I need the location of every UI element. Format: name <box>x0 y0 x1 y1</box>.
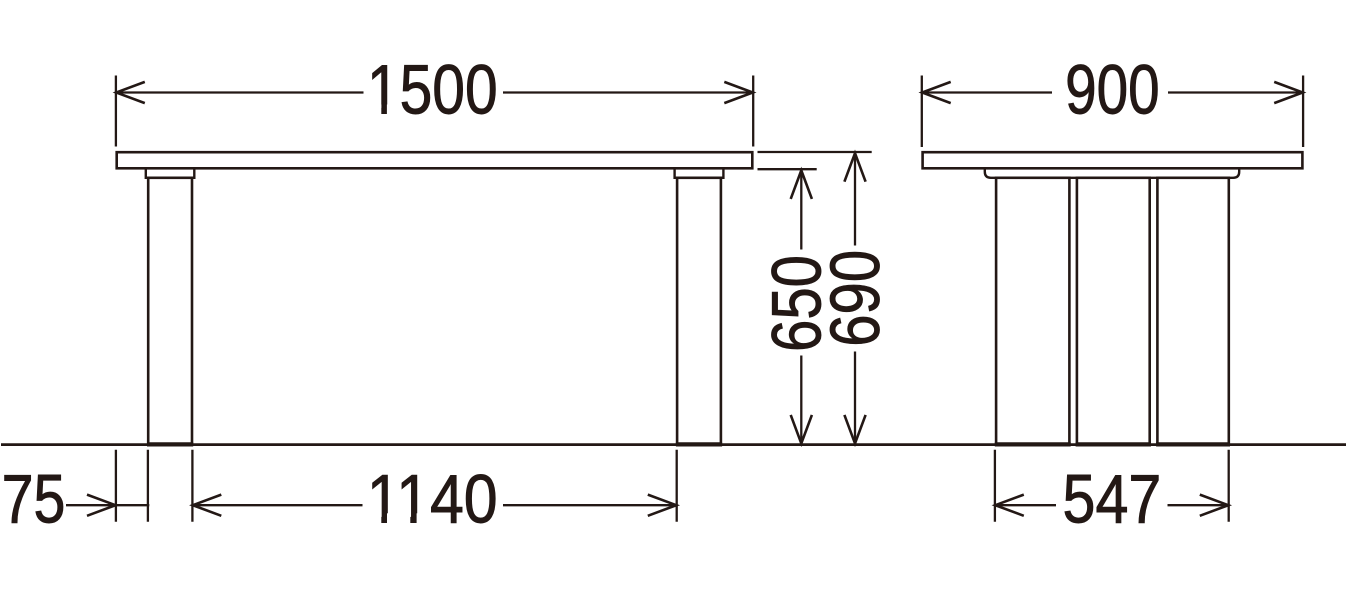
left leg collar front view <box>146 168 195 178</box>
dimension 900: dimension line left segment <box>922 91 1052 93</box>
tabletop front view <box>117 152 753 168</box>
left leg front view <box>148 178 192 444</box>
svg-text:547: 547 <box>1063 460 1162 537</box>
dimension 1140: left arrowhead <box>193 495 222 516</box>
panel 2 ground contact band <box>1076 442 1151 446</box>
dimension 1500: left extension line <box>115 76 117 147</box>
dimension 690: dimension line upper segment <box>854 153 856 245</box>
dimension 1140: extension line at left leg inner edge <box>191 450 193 522</box>
white patches: remove foot serif of digit 1 glyphs <box>369 105 427 525</box>
dimension 650: top arrowhead <box>791 170 812 199</box>
dimension 75: extension line at tabletop left edge <box>115 450 117 522</box>
leg panel 2 side view <box>1077 178 1150 444</box>
dimension 650: dimension line upper segment <box>800 170 802 249</box>
right leg ground contact band <box>676 442 722 446</box>
dimension 690: top extension line at tabletop top <box>758 151 872 153</box>
dimension 900: right arrowhead <box>1274 82 1303 103</box>
svg-text:75: 75 <box>2 462 66 538</box>
dimension 547: right arrowhead <box>1200 495 1229 516</box>
dimension 75: extension line at leg outer edge <box>147 450 149 522</box>
dimension 1500: left arrowhead <box>116 82 145 103</box>
svg-text:1500: 1500 <box>367 50 498 129</box>
panel 1 ground contact band <box>995 442 1071 446</box>
leg collar side view <box>985 168 1239 178</box>
leg panel 1 side view <box>996 178 1069 444</box>
panel 3 ground contact band <box>1156 442 1230 446</box>
dimension 547: left arrowhead <box>995 495 1024 516</box>
dimension 547: dimension line left segment <box>995 504 1056 506</box>
dimension 650: dimension line lower segment <box>800 356 802 444</box>
dimension 900: left extension line <box>921 76 923 148</box>
dimension 690: dimension line lower segment <box>854 352 856 444</box>
tabletop side view <box>923 152 1303 168</box>
dimension 1140: dimension line left segment <box>193 504 363 506</box>
dimension 900: left arrowhead <box>922 82 951 103</box>
svg-text:690: 690 <box>816 250 894 347</box>
dimension 547: right extension line <box>1228 450 1230 522</box>
dimension 690: bottom arrowhead <box>844 415 865 444</box>
dimension 1140: dimension line right segment <box>503 504 676 506</box>
dimension 547: left extension line <box>994 450 996 522</box>
dimension 75: inner segment between extension lines <box>116 504 149 506</box>
dimension 1500: dimension line left segment <box>117 91 364 93</box>
dimension 1500: right arrowhead <box>724 82 753 103</box>
dimension 650: top extension line at tabletop underside <box>758 168 817 170</box>
dimension 75: leader line from text <box>66 504 116 506</box>
left leg ground contact band <box>147 442 193 446</box>
dimension 1500: right extension line <box>752 76 754 147</box>
dimension 1140: right arrowhead <box>648 495 677 516</box>
dimension 1140: extension line at right leg inner edge <box>676 450 678 522</box>
dimension 547: dimension line right segment <box>1168 504 1229 506</box>
right leg collar front view <box>675 168 724 178</box>
dimension 1500: dimension line right segment <box>503 91 753 93</box>
ground line <box>1 443 1346 446</box>
svg-text:1140: 1140 <box>367 460 498 537</box>
svg-text:900: 900 <box>1065 51 1160 129</box>
dimension 650: bottom arrowhead <box>791 415 812 444</box>
dimension 900: dimension line right segment <box>1168 91 1303 93</box>
dimension 900: right extension line <box>1302 76 1304 148</box>
leg panel 3 side view <box>1157 178 1228 444</box>
right leg front view <box>677 178 721 444</box>
dimension 75: arrowhead pointing right <box>87 495 116 516</box>
dimension 690: top arrowhead <box>844 153 865 182</box>
